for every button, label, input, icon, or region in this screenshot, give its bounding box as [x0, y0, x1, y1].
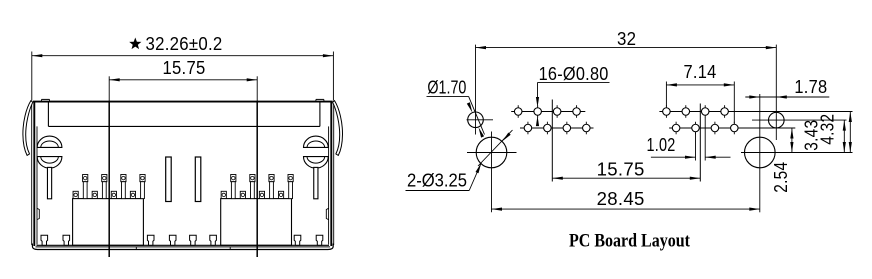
svg-text:PC Board Layout: PC Board Layout: [569, 232, 691, 252]
svg-text:2-Ø3.25: 2-Ø3.25: [407, 171, 467, 191]
svg-text:7.14: 7.14: [684, 61, 717, 82]
svg-text:32.26±0.2: 32.26±0.2: [146, 33, 223, 54]
svg-text:16-Ø0.80: 16-Ø0.80: [539, 63, 609, 84]
svg-text:15.75: 15.75: [163, 57, 206, 78]
svg-text:Ø1.70: Ø1.70: [427, 77, 466, 97]
svg-text:1.02: 1.02: [647, 134, 676, 155]
svg-text:32: 32: [617, 28, 636, 49]
svg-text:28.45: 28.45: [597, 188, 645, 209]
svg-text:4.32: 4.32: [817, 114, 838, 145]
svg-text:1.78: 1.78: [794, 76, 827, 97]
svg-text:2.54: 2.54: [770, 162, 791, 193]
svg-text:15.75: 15.75: [597, 159, 645, 180]
